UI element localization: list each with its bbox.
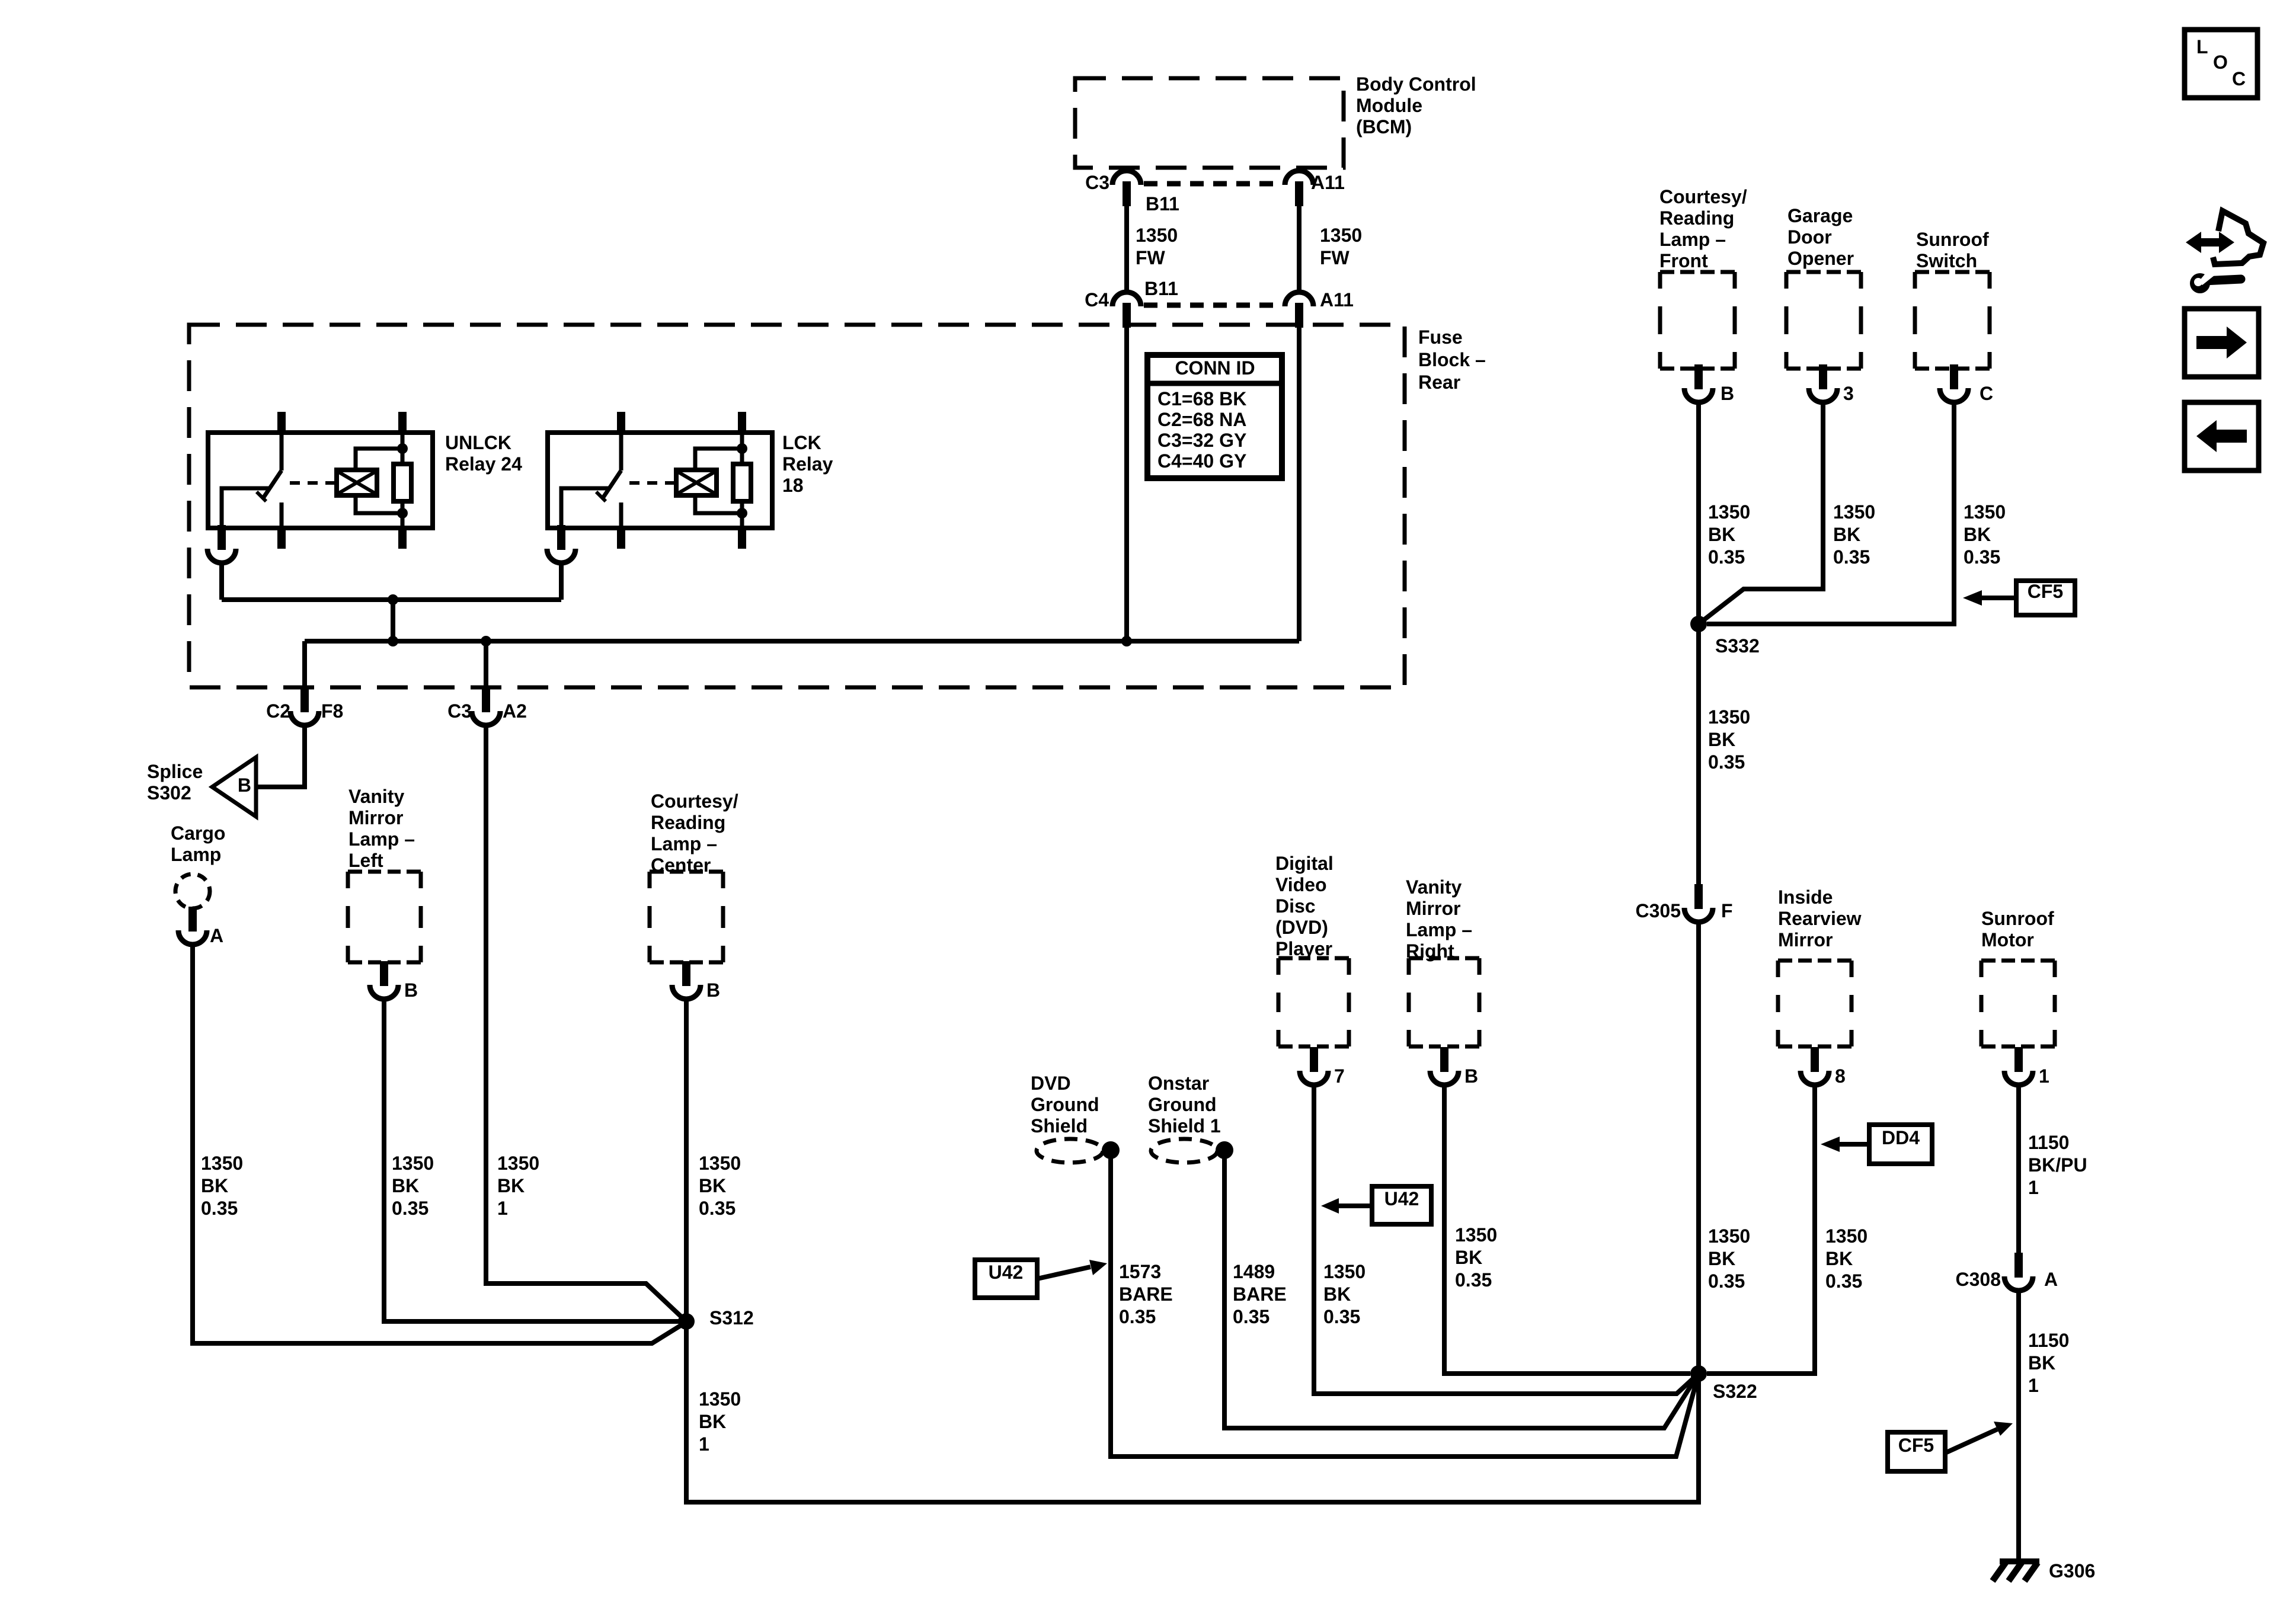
svg-text:1: 1 bbox=[497, 1198, 508, 1219]
svg-text:Mirror: Mirror bbox=[1406, 898, 1460, 919]
svg-text:0.35: 0.35 bbox=[1455, 1269, 1492, 1291]
LCK relay label bbox=[782, 432, 833, 496]
svg-text:Vanity: Vanity bbox=[1406, 876, 1462, 898]
connector A11 at BCM bbox=[1285, 171, 1313, 206]
svg-text:Courtesy/: Courtesy/ bbox=[1659, 186, 1747, 207]
wire label 1150 BK/PU 1 bbox=[2028, 1132, 2087, 1198]
svg-text:U42: U42 bbox=[989, 1262, 1024, 1283]
svg-text:Motor: Motor bbox=[1981, 929, 2034, 950]
svg-text:0.35: 0.35 bbox=[1825, 1270, 1862, 1292]
wire C2 to splice S302 bbox=[256, 725, 305, 787]
label C sunroof switch bbox=[1980, 383, 1993, 404]
svg-text:B: B bbox=[1464, 1065, 1478, 1087]
svg-text:Digital: Digital bbox=[1275, 853, 1334, 874]
svg-text:0.35: 0.35 bbox=[1708, 546, 1745, 568]
svg-text:F: F bbox=[1721, 900, 1733, 921]
svg-text:G306: G306 bbox=[2049, 1560, 2095, 1582]
CF5 reference box upper bbox=[2016, 581, 2075, 615]
svg-text:Vanity: Vanity bbox=[348, 786, 404, 807]
svg-text:Cargo: Cargo bbox=[171, 822, 225, 844]
U42 reference box right bbox=[1372, 1186, 1431, 1224]
svg-text:BK: BK bbox=[201, 1175, 228, 1196]
wire label 1350 BK 0.35 cargo bbox=[201, 1153, 243, 1219]
connector A11 at fuse block bbox=[1285, 292, 1313, 328]
svg-text:C3=32 GY: C3=32 GY bbox=[1157, 430, 1246, 451]
Sunroof Motor label bbox=[1981, 908, 2054, 950]
label A11 lower bbox=[1320, 289, 1354, 311]
cargo lamp dashed circle bbox=[175, 874, 210, 908]
svg-text:A2: A2 bbox=[503, 700, 527, 722]
relay UNLCK Relay 24 bbox=[208, 412, 433, 549]
svg-text:BK: BK bbox=[1825, 1248, 1853, 1269]
svg-text:B11: B11 bbox=[1144, 278, 1178, 299]
svg-text:C1=68 BK: C1=68 BK bbox=[1157, 388, 1246, 409]
svg-text:1350: 1350 bbox=[1825, 1225, 1868, 1247]
label A2 bbox=[503, 700, 527, 722]
wire label 1350 BK 0.35 above S322 bbox=[1708, 1225, 1750, 1292]
DVD player dashed box bbox=[1278, 958, 1349, 1046]
DVD ground shield dashed ellipse bbox=[1037, 1139, 1103, 1163]
svg-text:1573: 1573 bbox=[1119, 1261, 1161, 1282]
Fuse Block label bbox=[1418, 327, 1486, 393]
wire label 1489 BARE 0.35 bbox=[1233, 1261, 1287, 1327]
wire label 1350 BK 1 bbox=[497, 1153, 539, 1219]
svg-text:Reading: Reading bbox=[651, 812, 725, 833]
wire relay bus horizontal bbox=[222, 597, 561, 602]
svg-text:Shield: Shield bbox=[1031, 1115, 1088, 1137]
splice S322 bbox=[1690, 1365, 1707, 1382]
label B11 pin lower bbox=[1144, 278, 1178, 299]
DVD shield terminal dot bbox=[1102, 1141, 1120, 1159]
svg-text:8: 8 bbox=[1835, 1065, 1846, 1087]
LOC legend box bbox=[2185, 30, 2257, 98]
svg-text:CF5: CF5 bbox=[1898, 1435, 1934, 1456]
svg-text:Sunroof: Sunroof bbox=[1916, 229, 1989, 250]
wire onstar shield to S322 bbox=[1224, 1150, 1699, 1428]
connector B vanity left bbox=[370, 961, 398, 999]
wire label 1350 BK 0.35 vanity left bbox=[392, 1153, 434, 1219]
label 7 bbox=[1334, 1065, 1345, 1087]
svg-text:1: 1 bbox=[2039, 1065, 2049, 1087]
label B11 pin bbox=[1146, 193, 1179, 215]
svg-text:0.35: 0.35 bbox=[392, 1198, 428, 1219]
svg-text:BK: BK bbox=[1708, 524, 1735, 545]
Fuse Block - Rear dashed box bbox=[189, 325, 1405, 687]
svg-text:0.35: 0.35 bbox=[1708, 751, 1745, 773]
wire S312 to S322 bbox=[686, 1321, 1699, 1502]
svg-text:Lamp –: Lamp – bbox=[1406, 919, 1472, 940]
Vanity Mirror Lamp Right label bbox=[1406, 876, 1472, 962]
svg-text:C4: C4 bbox=[1085, 289, 1109, 311]
svg-text:L: L bbox=[2196, 36, 2208, 57]
svg-text:FW: FW bbox=[1136, 247, 1166, 268]
wire courtesy center to S312 bbox=[684, 999, 689, 1321]
Digital Video Disc DVD Player label bbox=[1275, 853, 1334, 959]
label A C308 bbox=[2044, 1269, 2058, 1290]
svg-text:Ground: Ground bbox=[1148, 1094, 1217, 1115]
svg-text:Lamp –: Lamp – bbox=[348, 828, 415, 850]
junction C3-A2 branch bbox=[481, 636, 491, 646]
svg-text:1: 1 bbox=[2028, 1375, 2039, 1396]
label C305 bbox=[1636, 900, 1681, 921]
svg-text:BK: BK bbox=[1833, 524, 1860, 545]
label C2 bbox=[266, 700, 290, 722]
wire cargo lamp to S312 bbox=[193, 945, 686, 1343]
wire sunroof motor to C308 bbox=[2016, 1085, 2021, 1255]
garage door opener dashed box bbox=[1786, 272, 1861, 369]
svg-text:18: 18 bbox=[782, 475, 804, 496]
svg-text:Sunroof: Sunroof bbox=[1981, 908, 2054, 929]
label 1 sunroof motor bbox=[2039, 1065, 2049, 1087]
svg-text:Mirror: Mirror bbox=[348, 807, 403, 828]
svg-text:C: C bbox=[1980, 383, 1993, 404]
CF5 arrow lower bbox=[1945, 1422, 2013, 1453]
inside rearview mirror dashed box bbox=[1778, 961, 1851, 1046]
svg-text:A11: A11 bbox=[1320, 289, 1354, 311]
svg-text:1350: 1350 bbox=[1833, 501, 1875, 523]
svg-text:Left: Left bbox=[348, 850, 383, 871]
Cargo Lamp label bbox=[171, 822, 225, 865]
connector B courtesy center bbox=[672, 961, 701, 999]
svg-text:BK: BK bbox=[497, 1175, 525, 1196]
svg-text:BK: BK bbox=[2028, 1352, 2055, 1374]
wire label 1150 BK 1 bbox=[2028, 1330, 2069, 1396]
label C308 bbox=[1956, 1269, 2001, 1290]
wire label 1573 BARE 0.35 bbox=[1119, 1261, 1173, 1327]
wire garage to S332 bbox=[1699, 402, 1823, 624]
svg-text:Rear: Rear bbox=[1418, 372, 1460, 393]
wire vanity right to S322 bbox=[1444, 1085, 1690, 1374]
svg-text:B: B bbox=[1721, 383, 1734, 404]
label 3 garage bbox=[1843, 383, 1854, 404]
wire courtesy front to S332 bbox=[1696, 402, 1701, 624]
Inside Rearview Mirror label bbox=[1778, 886, 1862, 950]
svg-text:U42: U42 bbox=[1384, 1188, 1419, 1209]
wire junction drop bbox=[391, 600, 395, 641]
svg-text:BK: BK bbox=[699, 1175, 726, 1196]
svg-text:BARE: BARE bbox=[1119, 1283, 1173, 1305]
wire label 1350 BK 0.35 mirror bbox=[1825, 1225, 1868, 1292]
svg-text:1350: 1350 bbox=[1320, 225, 1362, 246]
connector C2 F8 bbox=[290, 687, 319, 725]
svg-text:C308: C308 bbox=[1956, 1269, 2001, 1290]
svg-text:1350: 1350 bbox=[392, 1153, 434, 1174]
svg-text:BK: BK bbox=[392, 1175, 419, 1196]
connector at UNLCK relay pin bbox=[207, 525, 236, 563]
svg-text:B: B bbox=[238, 774, 251, 796]
label C3 lower bbox=[447, 700, 472, 722]
label S332 bbox=[1715, 635, 1760, 657]
svg-text:1350: 1350 bbox=[1455, 1224, 1497, 1246]
svg-text:0.35: 0.35 bbox=[1323, 1306, 1360, 1327]
svg-text:0.35: 0.35 bbox=[1964, 546, 2000, 568]
svg-text:BK: BK bbox=[1455, 1247, 1482, 1268]
BCM connector body dotted line bbox=[1144, 181, 1283, 187]
wire DVD player to S322 bbox=[1314, 1085, 1699, 1394]
svg-text:Splice: Splice bbox=[147, 761, 203, 782]
svg-text:S312: S312 bbox=[709, 1307, 754, 1329]
Vanity Mirror Lamp Left label bbox=[348, 786, 415, 871]
wire label 1350 BK 0.35 garage bbox=[1833, 501, 1875, 568]
svg-text:1350: 1350 bbox=[1708, 501, 1750, 523]
svg-text:S302: S302 bbox=[147, 782, 191, 804]
wire label 1350 FW right bbox=[1320, 225, 1362, 268]
label A bbox=[210, 925, 223, 946]
vehicle loc icon with double arrow and wrench bbox=[2186, 211, 2263, 293]
junction C4 wire on bus bbox=[1121, 636, 1132, 646]
svg-text:Lamp –: Lamp – bbox=[1659, 229, 1726, 250]
svg-text:F8: F8 bbox=[321, 700, 343, 722]
connector C4 at fuse block bbox=[1112, 292, 1141, 328]
label A11 bbox=[1311, 172, 1345, 193]
Body Control Module (BCM) dashed box bbox=[1075, 78, 1344, 168]
wire label 1350 BK 0.35 sunroof switch bbox=[1964, 501, 2006, 568]
svg-text:S332: S332 bbox=[1715, 635, 1760, 657]
svg-text:Front: Front bbox=[1659, 250, 1708, 271]
label B courtesy center bbox=[706, 980, 720, 1001]
wire 1350 FW left BCM to fuse block bbox=[1124, 205, 1129, 292]
svg-text:Onstar: Onstar bbox=[1148, 1073, 1209, 1094]
U42 reference box left bbox=[975, 1260, 1037, 1298]
svg-text:(DVD): (DVD) bbox=[1275, 917, 1328, 938]
junction on relay bus bbox=[388, 594, 398, 605]
svg-text:C4=40 GY: C4=40 GY bbox=[1157, 450, 1246, 472]
DVD Ground Shield label bbox=[1031, 1073, 1099, 1137]
svg-text:BK: BK bbox=[1708, 1248, 1735, 1269]
Garage Door Opener label bbox=[1787, 205, 1854, 269]
U42 arrow left bbox=[1037, 1260, 1107, 1279]
svg-text:CONN ID: CONN ID bbox=[1175, 357, 1255, 379]
Splice S302 label bbox=[147, 761, 203, 804]
splice S332 bbox=[1690, 616, 1707, 632]
label C4 bbox=[1085, 289, 1109, 311]
splice S302 triangle bbox=[212, 757, 256, 817]
label S312 bbox=[709, 1307, 754, 1329]
label S322 bbox=[1713, 1381, 1757, 1402]
svg-text:Body Control: Body Control bbox=[1356, 73, 1476, 95]
wire mirror to S322 bbox=[1707, 1085, 1815, 1374]
svg-text:Lamp: Lamp bbox=[171, 844, 221, 865]
label C3 bbox=[1085, 172, 1109, 193]
svg-text:C305: C305 bbox=[1636, 900, 1681, 921]
svg-text:Opener: Opener bbox=[1787, 248, 1854, 269]
svg-text:S322: S322 bbox=[1713, 1381, 1757, 1402]
wire sunroof switch to S332 bbox=[1707, 402, 1954, 624]
svg-text:(BCM): (BCM) bbox=[1356, 116, 1412, 137]
svg-text:Relay: Relay bbox=[782, 453, 833, 475]
splice S312 bbox=[678, 1313, 695, 1330]
svg-text:0.35: 0.35 bbox=[1119, 1306, 1156, 1327]
wire label 1350 BK 0.35 below S332 bbox=[1708, 706, 1750, 773]
svg-text:1350: 1350 bbox=[1136, 225, 1178, 246]
wire 1350 FW right BCM to fuse block bbox=[1297, 205, 1302, 292]
connector at LCK relay pin bbox=[547, 525, 575, 563]
wire label 1350 BK 1 below S312 bbox=[699, 1388, 741, 1455]
svg-text:BK: BK bbox=[1964, 524, 1991, 545]
svg-text:1350: 1350 bbox=[1964, 501, 2006, 523]
svg-text:7: 7 bbox=[1334, 1065, 1345, 1087]
svg-text:1150: 1150 bbox=[2028, 1132, 2069, 1153]
forward arrow box bbox=[2185, 309, 2259, 377]
svg-text:CF5: CF5 bbox=[2028, 581, 2063, 602]
ground G306 bbox=[1993, 1561, 2039, 1581]
svg-text:1350: 1350 bbox=[699, 1388, 741, 1410]
svg-text:1350: 1350 bbox=[1708, 706, 1750, 728]
svg-text:C2: C2 bbox=[266, 700, 290, 722]
svg-text:0.35: 0.35 bbox=[1708, 1270, 1745, 1292]
CF5 arrow upper bbox=[1963, 590, 2016, 606]
svg-text:A: A bbox=[210, 925, 223, 946]
vanity mirror right dashed box bbox=[1409, 958, 1479, 1046]
svg-text:UNLCK: UNLCK bbox=[445, 432, 511, 453]
label G306 bbox=[2049, 1560, 2095, 1582]
Courtesy Reading Lamp Center label bbox=[651, 790, 738, 876]
svg-text:Garage: Garage bbox=[1787, 205, 1853, 226]
connector B vanity right bbox=[1430, 1047, 1459, 1085]
fuse connector body dotted line bbox=[1144, 303, 1283, 308]
connector C sunroof switch bbox=[1940, 364, 1968, 402]
svg-text:Switch: Switch bbox=[1916, 250, 1977, 271]
svg-text:Video: Video bbox=[1275, 874, 1327, 895]
connector 7 DVD player bbox=[1300, 1047, 1328, 1085]
DD4 reference box bbox=[1869, 1125, 1932, 1164]
wire label 1350 FW bbox=[1136, 225, 1178, 268]
wire S332 to C305 bbox=[1696, 624, 1701, 894]
wire bus to C3 connector bbox=[484, 641, 488, 689]
svg-text:Lamp –: Lamp – bbox=[651, 833, 717, 854]
svg-text:C: C bbox=[2232, 68, 2246, 89]
svg-text:1350: 1350 bbox=[201, 1153, 243, 1174]
connector 3 garage bbox=[1809, 364, 1837, 402]
label B vanity right bbox=[1464, 1065, 1478, 1087]
label B courtesy front bbox=[1721, 383, 1734, 404]
svg-text:1: 1 bbox=[2028, 1177, 2039, 1198]
connector C3 at BCM bbox=[1112, 171, 1141, 206]
relay LCK Relay 18 bbox=[548, 412, 772, 549]
svg-text:C3: C3 bbox=[447, 700, 472, 722]
sunroof switch dashed box bbox=[1915, 272, 1990, 369]
svg-text:Ground: Ground bbox=[1031, 1094, 1099, 1115]
svg-text:Reading: Reading bbox=[1659, 207, 1734, 229]
U42 arrow right bbox=[1321, 1198, 1372, 1214]
svg-text:B: B bbox=[706, 980, 720, 1001]
wire A11 drop to bus bbox=[1297, 327, 1302, 641]
wire C308 to ground G306 bbox=[2016, 1291, 2021, 1561]
svg-text:Mirror: Mirror bbox=[1778, 929, 1833, 950]
courtesy front dashed box bbox=[1660, 272, 1735, 369]
svg-text:Block –: Block – bbox=[1418, 349, 1486, 370]
wire C4 drop to bus bbox=[1124, 327, 1129, 641]
svg-text:B11: B11 bbox=[1146, 193, 1179, 215]
onstar ground shield dashed ellipse bbox=[1151, 1139, 1217, 1163]
svg-text:Disc: Disc bbox=[1275, 895, 1316, 917]
svg-text:DD4: DD4 bbox=[1882, 1127, 1920, 1148]
wire label 1350 BK 0.35 dvd bbox=[1323, 1261, 1366, 1327]
wire C305 to S322 bbox=[1696, 922, 1701, 1374]
svg-text:1: 1 bbox=[699, 1433, 709, 1455]
junction on main ground bus bbox=[388, 636, 398, 646]
DD4 arrow bbox=[1821, 1137, 1869, 1152]
svg-text:C3: C3 bbox=[1085, 172, 1109, 193]
wire C3 A2 down to S312 bbox=[486, 725, 686, 1321]
svg-text:0.35: 0.35 bbox=[699, 1198, 736, 1219]
svg-text:Fuse: Fuse bbox=[1418, 327, 1463, 348]
CONN ID table bbox=[1147, 355, 1282, 478]
svg-text:A: A bbox=[2044, 1269, 2058, 1290]
wire UNLCK relay down bbox=[219, 563, 224, 600]
connector B courtesy front bbox=[1684, 364, 1713, 402]
svg-text:BK: BK bbox=[1323, 1283, 1351, 1305]
svg-text:1350: 1350 bbox=[699, 1153, 741, 1174]
svg-text:DVD: DVD bbox=[1031, 1073, 1071, 1094]
svg-text:0.35: 0.35 bbox=[1233, 1306, 1269, 1327]
connector C308 A bbox=[2004, 1253, 2033, 1291]
svg-text:A11: A11 bbox=[1311, 172, 1345, 193]
svg-text:Rearview: Rearview bbox=[1778, 908, 1862, 929]
vanity mirror left dashed box bbox=[348, 872, 421, 962]
svg-text:0.35: 0.35 bbox=[201, 1198, 238, 1219]
courtesy center dashed box bbox=[650, 872, 723, 962]
wire label 1350 BK 0.35 front bbox=[1708, 501, 1750, 568]
svg-text:BK: BK bbox=[699, 1411, 726, 1432]
svg-text:Shield 1: Shield 1 bbox=[1148, 1115, 1221, 1137]
wire main ground bus bbox=[305, 639, 1299, 644]
connector 1 sunroof motor bbox=[2004, 1047, 2033, 1085]
wire LCK relay down bbox=[559, 563, 564, 600]
svg-text:O: O bbox=[2213, 52, 2228, 73]
BCM label bbox=[1356, 73, 1476, 137]
svg-text:BK/PU: BK/PU bbox=[2028, 1154, 2087, 1176]
wire vanity left to S312 bbox=[384, 999, 682, 1321]
Sunroof Switch label bbox=[1916, 229, 1989, 271]
svg-text:B: B bbox=[404, 980, 418, 1001]
label 8 mirror bbox=[1835, 1065, 1846, 1087]
svg-text:LCK: LCK bbox=[782, 432, 821, 453]
connector 8 mirror bbox=[1801, 1047, 1829, 1085]
svg-text:1350: 1350 bbox=[1708, 1225, 1750, 1247]
connector C3 A2 bbox=[472, 687, 500, 725]
svg-text:0.35: 0.35 bbox=[1833, 546, 1870, 568]
svg-text:1350: 1350 bbox=[497, 1153, 539, 1174]
wire bus to C2 connector bbox=[302, 641, 307, 689]
svg-text:FW: FW bbox=[1320, 247, 1350, 268]
svg-text:Courtesy/: Courtesy/ bbox=[651, 790, 738, 812]
wire label 1350 BK 0.35 center bbox=[699, 1153, 741, 1219]
wire label 1350 BK 0.35 vanity right bbox=[1455, 1224, 1497, 1291]
svg-text:C2=68 NA: C2=68 NA bbox=[1157, 409, 1246, 430]
label B vanity left bbox=[404, 980, 418, 1001]
svg-text:1350: 1350 bbox=[1323, 1261, 1366, 1282]
wire DVD shield to S322 bbox=[1111, 1150, 1699, 1457]
svg-text:1150: 1150 bbox=[2028, 1330, 2069, 1351]
CF5 reference box lower bbox=[1888, 1432, 1945, 1471]
svg-text:Inside: Inside bbox=[1778, 886, 1833, 908]
Onstar Ground Shield 1 label bbox=[1148, 1073, 1221, 1137]
UNLCK relay label bbox=[445, 432, 522, 475]
Courtesy Reading Lamp Front label bbox=[1659, 186, 1747, 271]
svg-text:Module: Module bbox=[1356, 95, 1422, 116]
connector A cargo lamp bbox=[178, 907, 207, 945]
svg-text:Relay 24: Relay 24 bbox=[445, 453, 522, 475]
label F8 bbox=[321, 700, 343, 722]
label F bbox=[1721, 900, 1733, 921]
onstar shield terminal dot bbox=[1216, 1141, 1233, 1159]
svg-text:BARE: BARE bbox=[1233, 1283, 1287, 1305]
svg-text:3: 3 bbox=[1843, 383, 1854, 404]
svg-text:Door: Door bbox=[1787, 226, 1832, 248]
back arrow box bbox=[2185, 402, 2259, 470]
svg-text:BK: BK bbox=[1708, 729, 1735, 750]
